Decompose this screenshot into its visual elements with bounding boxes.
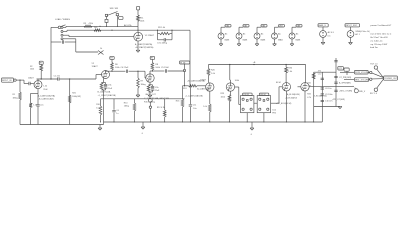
svg-text:+SEC_OT(8R): +SEC_OT(8R): [339, 91, 352, 93]
svg-text:B_EL34(EL34): B_EL34(EL34): [314, 95, 327, 97]
svg-text:1Meg: 1Meg: [13, 97, 18, 99]
svg-text:J EL34: J EL34: [243, 94, 249, 96]
svg-text:PI_IN: PI_IN: [180, 62, 186, 64]
svg-text:BIAS: BIAS: [296, 39, 301, 42]
svg-text:100k: 100k: [221, 96, 225, 98]
svg-text:1Meg: 1Meg: [124, 106, 129, 108]
svg-text:+PR_OT(16R): +PR_OT(16R): [332, 99, 345, 101]
svg-text:C1 22n: C1 22n: [54, 76, 60, 78]
svg-text:12AX7: 12AX7: [92, 65, 99, 68]
svg-text:R12 4.7k: R12 4.7k: [157, 107, 165, 109]
svg-text:OT_PRI(16R): OT_PRI(16R): [339, 77, 352, 79]
svg-text:SINE(0 50m 1k): SINE(0 50m 1k): [355, 31, 370, 33]
svg-text:ROW_VOLUME: ROW_VOLUME: [355, 72, 370, 74]
svg-text:.inc tubes.inc: .inc tubes.inc: [370, 40, 384, 43]
svg-text:LOAD / WIRES: LOAD / WIRES: [55, 18, 70, 21]
svg-text:100k(2W): 100k(2W): [72, 96, 81, 98]
svg-text:C6: C6: [116, 110, 118, 112]
svg-text:1.0k: 1.0k: [96, 107, 100, 109]
svg-text:VB7: VB7: [279, 26, 283, 28]
svg-text:100k: 100k: [235, 80, 239, 82]
svg-text:POWER_OUT: POWER_OUT: [384, 78, 398, 80]
svg-text:RLY 1.0: RLY 1.0: [370, 63, 378, 65]
svg-text:A_12AX7(12AX7A): A_12AX7(12AX7A): [38, 94, 55, 97]
svg-text:1.5k: 1.5k: [43, 86, 47, 88]
svg-text:R9 1.0k: R9 1.0k: [158, 27, 166, 29]
svg-text:+PR_EL34(EL34): +PR_EL34(EL34): [276, 103, 292, 105]
svg-text:B_12AX7(12A: B_12AX7(12A: [98, 91, 111, 94]
svg-text:B_GND(12AX: B_GND(12AX: [157, 97, 170, 100]
svg-text:22uF: 22uF: [155, 90, 160, 92]
svg-text:AK 470k: AK 470k: [124, 24, 132, 27]
svg-text:12AX7: 12AX7: [28, 77, 34, 80]
svg-text:MID_V: MID_V: [359, 91, 366, 93]
svg-text:C3 2.2Meg: C3 2.2Meg: [157, 43, 167, 45]
svg-text:lead 3m: lead 3m: [370, 47, 378, 49]
svg-text:BIAS_S: BIAS_S: [319, 24, 327, 27]
svg-text:BIAS: BIAS: [243, 39, 248, 42]
svg-text:1u: 1u: [116, 113, 118, 115]
svg-text:BIAS: BIAS: [225, 39, 230, 42]
svg-text:INPUT_SRC: INPUT_SRC: [346, 25, 358, 27]
svg-text:C_12AX7(12A: C_12AX7(12A: [144, 97, 157, 100]
svg-text:A_12AX7(12AX7A): A_12AX7(12AX7A): [135, 43, 152, 46]
svg-text:.op .93 step 1/4W: .op .93 step 1/4W: [370, 43, 388, 46]
svg-text:AC 0.5: AC 0.5: [328, 31, 335, 34]
svg-text:5.0k: 5.0k: [272, 109, 276, 111]
svg-text:R16: R16: [176, 101, 179, 103]
svg-text:VB8: VB8: [297, 26, 301, 28]
svg-text:22uF: 22uF: [43, 89, 48, 91]
svg-text:.param Vs=filtered HT: .param Vs=filtered HT: [370, 24, 392, 27]
svg-text:+1_12AX7(12AX7A): +1_12AX7(12AX7A): [98, 94, 116, 97]
svg-text:.tran 0 50m 10m 1u st: .tran 0 50m 10m 1u st: [370, 33, 392, 36]
svg-text:A_SPKR(8R): A_SPKR(8R): [339, 81, 351, 84]
svg-text:A_EL34(EL34): A_EL34(EL34): [287, 93, 300, 96]
svg-text:J EL34: J EL34: [260, 94, 266, 96]
svg-text:100k: 100k: [30, 69, 34, 71]
svg-text:1.0u: 1.0u: [193, 108, 197, 110]
svg-text:BIAS: BIAS: [261, 39, 266, 42]
svg-text:+B_12AX7(12AX): +B_12AX7(12AX): [38, 98, 54, 101]
svg-text:C11: C11: [193, 105, 196, 107]
svg-text:+B_EL34(EL3: +B_EL34(EL3: [285, 97, 297, 99]
svg-text:R16: R16: [96, 104, 100, 106]
svg-text:SW / SW: SW / SW: [110, 8, 118, 10]
svg-text:4.7k: 4.7k: [307, 97, 311, 99]
svg-text:V3 12AX7: V3 12AX7: [145, 34, 155, 37]
svg-text:+1_12AX7(12AX7A): +1_12AX7(12AX7A): [185, 94, 203, 97]
svg-text:R19: R19: [183, 88, 187, 90]
svg-text:1k: 1k: [100, 48, 102, 50]
svg-text:PR5: PR5: [272, 112, 276, 114]
svg-text:VB4: VB4: [226, 26, 230, 28]
svg-text:C4 22nF: C4 22nF: [121, 67, 130, 69]
svg-text:.lib 12ax7 .lib el34: .lib 12ax7 .lib el34: [370, 37, 388, 39]
svg-text:R15 1.0Meg: R15 1.0Meg: [144, 101, 155, 103]
svg-text:RLY 1.0: RLY 1.0: [370, 93, 378, 95]
svg-text:1.5k: 1.5k: [33, 104, 37, 106]
svg-text:VB5: VB5: [244, 26, 248, 28]
svg-text:BIAS: BIAS: [278, 39, 283, 42]
svg-text:R31: R31: [307, 83, 310, 85]
svg-text:+B_12AX7(12AX7A): +B_12AX7(12AX7A): [187, 79, 205, 82]
svg-text:22u: 22u: [40, 104, 43, 106]
svg-text:C8 10u: C8 10u: [325, 88, 331, 90]
svg-text:INPUT_IN: INPUT_IN: [2, 80, 12, 82]
svg-text:A_12AX7(12A: A_12AX7(12A: [197, 88, 210, 91]
svg-text:1Meg: 1Meg: [141, 84, 146, 86]
svg-text:C12: C12: [318, 74, 321, 76]
svg-text:1.0k: 1.0k: [203, 106, 207, 108]
svg-text:C5 22nF: C5 22nF: [161, 67, 170, 69]
svg-text:VB6: VB6: [262, 26, 266, 28]
svg-text:22uF: 22uF: [108, 88, 113, 90]
svg-text:MIDL_VOLUME: MIDL_VOLUME: [355, 79, 370, 81]
